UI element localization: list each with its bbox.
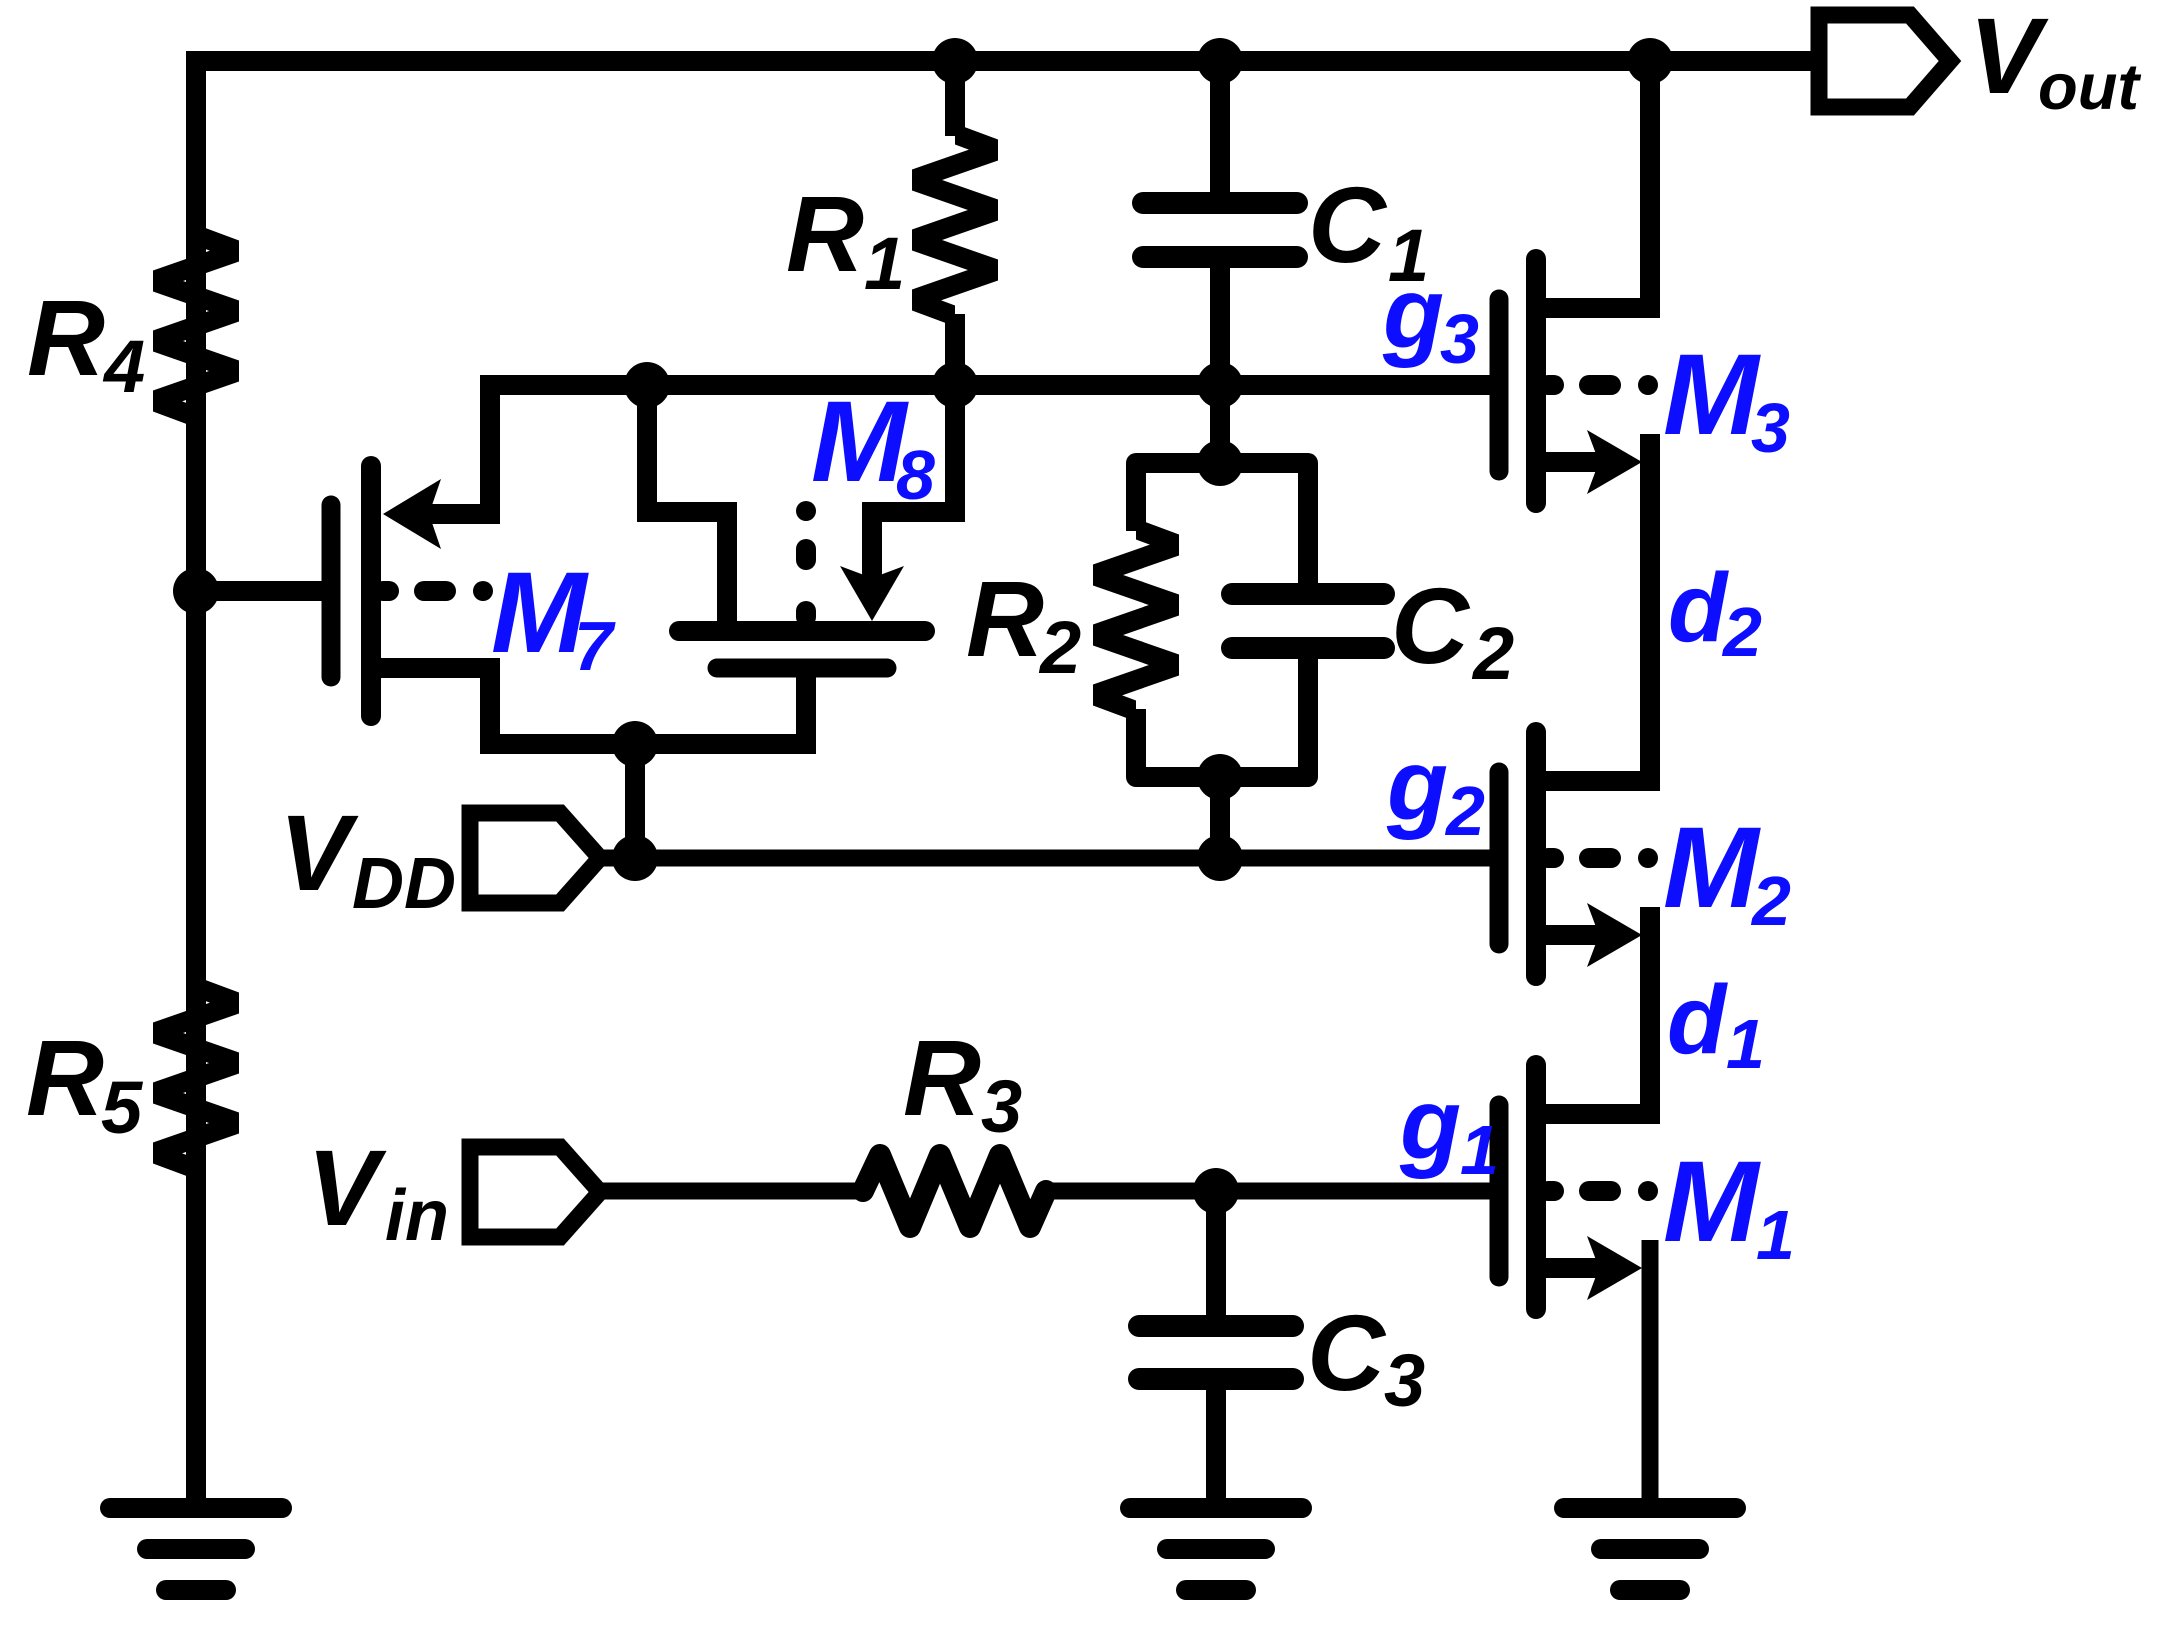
svg-text:g: g (1382, 257, 1444, 369)
arrow of M2 (1587, 903, 1642, 967)
svg-text:3: 3 (1751, 389, 1790, 467)
ground (left) (110, 1508, 282, 1590)
wire: M7 source to VDD rail (371, 668, 806, 744)
svg-text:1: 1 (1460, 1111, 1499, 1189)
arrow of M7 (383, 479, 441, 549)
port Vin (470, 1147, 600, 1237)
svg-text:DD: DD (352, 844, 456, 924)
node: VDD wire (612, 835, 658, 881)
svg-text:C: C (1308, 164, 1388, 285)
svg-text:R: R (26, 1017, 104, 1138)
node: R2C2 bottom (1197, 754, 1243, 800)
svg-text:2: 2 (1471, 612, 1514, 695)
wire: g3 net (480, 375, 1492, 395)
port VDD (470, 813, 600, 903)
svg-text:4: 4 (102, 325, 145, 408)
node: M7/M8 source rail (612, 721, 658, 767)
svg-text:R: R (27, 277, 105, 398)
node: top rail / C1 (1197, 38, 1243, 84)
node: left rail / M7 gate (173, 568, 219, 614)
wire: top rail and left rail (196, 61, 1820, 1498)
resistor R3 (600, 1183, 865, 1200)
svg-text:V: V (1969, 0, 2049, 116)
svg-text:2: 2 (1721, 593, 1762, 671)
transistor M3 (1499, 259, 1536, 503)
capacitor C3 (1206, 1191, 1226, 1316)
svg-text:3: 3 (1384, 1339, 1425, 1422)
transistor M7 (196, 581, 322, 601)
svg-text:d: d (1667, 965, 1728, 1074)
svg-text:3: 3 (981, 1065, 1022, 1148)
svg-text:R: R (786, 173, 864, 294)
node: top rail / M3 drain (1627, 38, 1673, 84)
node: g2 / R2C2 (1197, 835, 1243, 881)
svg-text:1: 1 (1726, 1005, 1765, 1083)
svg-text:8: 8 (896, 436, 935, 514)
svg-text:R: R (966, 558, 1044, 679)
node: g3 / R1 (932, 362, 978, 408)
transistor M1 (1499, 1065, 1536, 1309)
wire: M7 drain to g3 (429, 385, 490, 514)
node: Vin / R3 / C3 (1193, 1168, 1239, 1214)
arrow of M8 (840, 566, 904, 621)
capacitor C1 (1210, 61, 1230, 193)
node: g3 / M8 drain (624, 362, 670, 408)
svg-text:g: g (1386, 729, 1448, 841)
resistor R5 (153, 977, 239, 1180)
transistor M8 (679, 631, 925, 668)
wire: VDD tap (625, 744, 645, 858)
svg-text:V: V (279, 792, 359, 913)
svg-text:C: C (1391, 565, 1471, 686)
transistor M2 (1499, 732, 1536, 976)
arrow of M3 (1587, 430, 1642, 494)
svg-text:1: 1 (1756, 1196, 1795, 1274)
svg-text:M: M (1663, 1138, 1761, 1266)
ground (center) (1130, 1508, 1302, 1590)
wire: VDD / g2 net (600, 850, 1492, 867)
svg-text:d: d (1668, 553, 1729, 662)
svg-text:5: 5 (101, 1066, 144, 1149)
node: R2C2 top (1197, 440, 1243, 486)
svg-text:2: 2 (1444, 772, 1485, 850)
svg-text:M: M (1663, 804, 1761, 932)
capacitor C2 (1298, 463, 1318, 584)
node: g3 / C1 (1197, 362, 1243, 408)
arrow of M1 (1587, 1236, 1642, 1300)
svg-text:C: C (1307, 1292, 1387, 1413)
port Vout (1819, 15, 1950, 107)
svg-text:in: in (385, 1176, 449, 1256)
svg-text:g: g (1399, 1068, 1461, 1180)
svg-text:2: 2 (1038, 606, 1081, 689)
ground (right) (1564, 1508, 1736, 1590)
svg-text:M: M (811, 378, 909, 506)
svg-text:3: 3 (1440, 300, 1479, 378)
wire: M8 drain to g3 (647, 385, 727, 631)
resistor R1 (945, 61, 965, 136)
svg-text:7: 7 (574, 607, 616, 685)
wire: M8 source to g3 (872, 385, 955, 580)
svg-text:2: 2 (1750, 862, 1791, 940)
node: top rail / R1 (932, 38, 978, 84)
svg-text:M: M (1663, 331, 1761, 459)
resistor R4 (153, 225, 239, 428)
resistor R2 (1210, 385, 1230, 463)
svg-text:R: R (903, 1017, 981, 1138)
svg-text:V: V (307, 1127, 387, 1248)
svg-text:out: out (2038, 50, 2141, 123)
svg-text:1: 1 (864, 222, 905, 305)
